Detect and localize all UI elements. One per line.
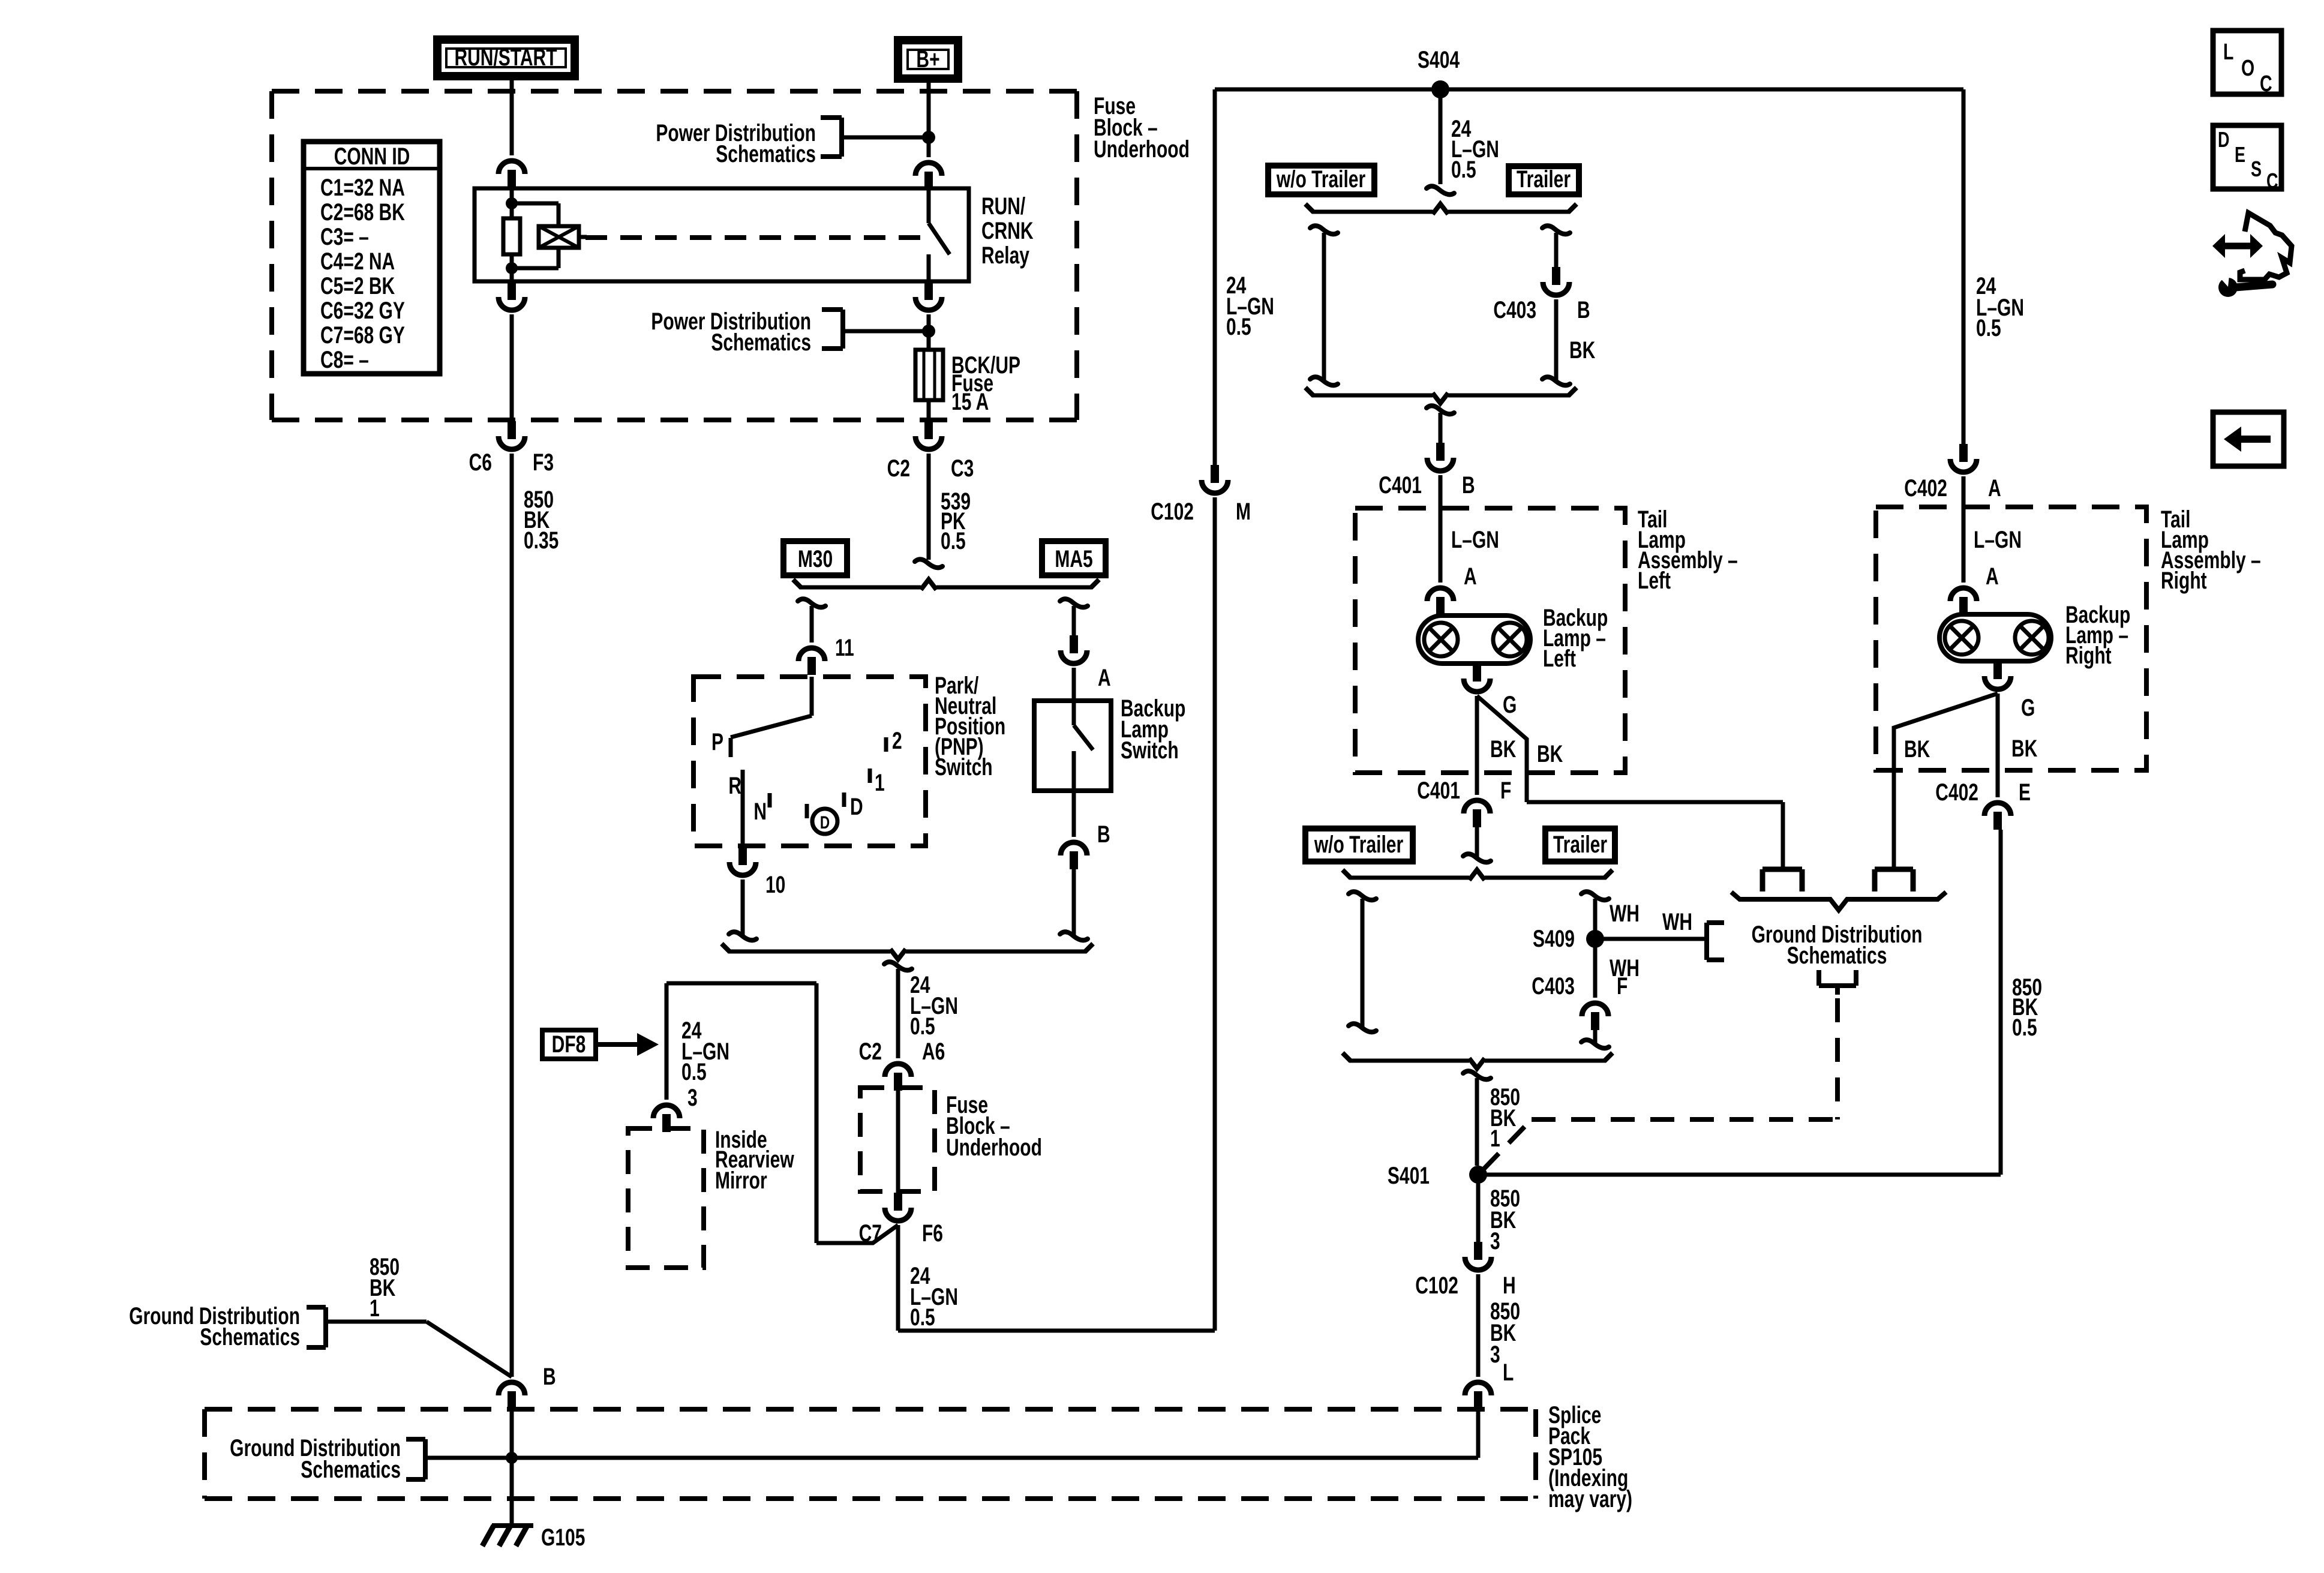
svg-text:G105: G105 [541,1524,585,1551]
connector left lamp G [1473,664,1481,682]
svg-text:w/o Trailer: w/o Trailer [1314,831,1403,858]
svg-text:L: L [1503,1359,1514,1386]
svg-text:Underhood: Underhood [1094,136,1190,163]
svg-text:Right: Right [2065,643,2112,669]
label box w/o Trailer upper [1268,166,1374,194]
PNP switch dashed box [693,677,926,846]
inside rearview mirror dashed box [628,1128,704,1268]
icon box back-arrow [2213,412,2284,466]
svg-text:3: 3 [687,1085,698,1111]
wire trailer branch upper [1554,233,1559,267]
wire coil stub [579,235,587,239]
power label box B+ [898,40,958,79]
svg-text:C403: C403 [1493,297,1536,323]
svg-text:B: B [1577,297,1590,323]
svg-text:L–GN: L–GN [1451,527,1499,553]
label box DF8 [542,1030,596,1059]
wire main through splice [510,1409,514,1499]
svg-text:B: B [543,1364,556,1390]
svg-text:A: A [1098,665,1111,691]
svg-text:may vary): may vary) [1548,1486,1632,1512]
connector C7/F6 [894,1193,902,1211]
wire L-GN into left lamp [1439,475,1443,583]
wire ground dist left [326,1320,427,1324]
wire C403 F stub [1593,1030,1598,1044]
wire jog to mirror feed [816,1225,898,1243]
svg-text:C6: C6 [469,449,492,476]
svg-text:DF8: DF8 [552,1031,586,1058]
bracket power distribution mid [840,310,845,349]
wire to ground tap 1 [1781,802,1785,869]
options bus M30/MA5 [800,586,921,590]
connector C403/B [1552,267,1560,285]
svg-text:Underhood: Underhood [946,1134,1042,1161]
splice break w/o trailer branch top [1310,226,1338,234]
svg-text:RUN/: RUN/ [981,193,1025,220]
splice break symbol above M30 bus [915,559,942,568]
svg-text:0.35: 0.35 [524,527,559,554]
backup lamp switch box [1034,701,1111,791]
svg-text:C401: C401 [1379,472,1422,499]
connector relay left pin out [508,282,516,300]
bracket below ground distribution [1816,970,1821,986]
svg-text:N: N [753,798,767,825]
svg-text:D: D [2218,127,2229,152]
PNP contact 2 tick [884,737,888,752]
svg-text:Schematics: Schematics [200,1324,300,1350]
label box Trailer lower [1545,828,1615,861]
svg-text:C1=32 NA: C1=32 NA [320,175,405,201]
power label box RUN/START [437,40,575,76]
dashed link horizontal [1532,1117,1837,1122]
backup switch blade [1074,725,1093,750]
svg-text:M30: M30 [798,546,833,572]
icon box DESC [2213,125,2281,189]
svg-text:Relay: Relay [981,242,1029,269]
label box Trailer upper [1509,166,1579,194]
svg-text:3: 3 [1490,1341,1500,1368]
wire lower w/o trailer branch [1361,899,1365,1027]
splice break above lower trailer bus [1463,854,1491,862]
wire relay switch top [927,188,931,223]
junction dot S401 [1469,1166,1487,1184]
bracket power distribution top [839,118,844,157]
backup lamp left bulb [1418,616,1530,664]
svg-text:C3: C3 [951,455,974,482]
connector mirror pin 3 [653,1105,680,1118]
svg-text:P: P [711,729,723,755]
splice pack dashed box [205,1409,1536,1499]
svg-text:RUN/START: RUN/START [454,44,557,71]
svg-text:0.5: 0.5 [910,1304,935,1331]
svg-text:B+: B+ [916,46,939,73]
connector backup switch A [1070,635,1078,653]
wire S401 horizontal [1478,1173,2001,1177]
connector C102/H [1474,1242,1482,1260]
CONN ID table box [304,142,440,374]
junction dot relay coil top [506,197,518,209]
wire coil branch top [512,202,559,206]
lower trailer split bus [1350,876,1469,880]
PNP switch blade [731,716,812,737]
wire C401 F stub [1475,827,1479,857]
svg-text:S401: S401 [1388,1163,1430,1189]
svg-text:D: D [850,794,863,820]
ground symbol G105 [492,1523,533,1528]
wire to G105 [510,1499,514,1526]
wire 850 BK 0.35 down [510,454,514,1377]
svg-text:Right: Right [2161,568,2207,594]
wire w/o trailer branch [1322,233,1326,380]
fuse block underhood dashed box [272,91,1077,420]
svg-text:G: G [1503,692,1517,718]
wire relay right out [927,314,931,350]
junction dot S404 [1431,80,1449,98]
relay switch blade [929,223,950,254]
splice break S409 branch top [1581,891,1609,900]
connector C402/A [1959,444,1968,462]
svg-text:Mirror: Mirror [715,1167,767,1194]
svg-text:C5=2 BK: C5=2 BK [320,273,395,299]
svg-text:H: H [1503,1272,1516,1299]
wire backup switch B out [1072,791,1076,837]
svg-text:C7=68 GY: C7=68 GY [320,322,405,349]
svg-text:R: R [728,773,741,799]
svg-text:C4=2 NA: C4=2 NA [320,248,395,275]
ground tap right [1875,867,1913,872]
svg-text:C402: C402 [1904,475,1947,502]
wire S404 horizontal [1215,88,1963,92]
svg-text:Schematics: Schematics [711,329,811,356]
svg-text:Trailer: Trailer [1553,831,1607,858]
PNP contact D-circled tick [805,804,809,818]
PNP contact P tick [729,738,733,757]
wire 24 L-GN to C2/A6 [896,969,900,1058]
svg-text:B: B [1097,821,1110,848]
svg-text:Switch: Switch [935,754,993,781]
wire RUN/START to relay [510,76,514,155]
svg-text:L: L [2223,40,2233,65]
junction dot fuse node [922,325,935,338]
svg-text:BK: BK [2011,736,2038,762]
label box w/o Trailer lower [1305,828,1413,861]
wire backup switch blade bottom [1072,751,1076,791]
junction dot B+ node [922,131,935,144]
connector into relay right pin [915,163,942,176]
svg-text:C: C [2266,169,2278,193]
connector C2/C3 [924,421,933,439]
svg-text:Left: Left [1638,568,1671,594]
wire S409 down [1593,939,1598,998]
svg-text:F: F [1500,778,1511,804]
svg-text:MA5: MA5 [1055,546,1092,572]
splice break trailer branch top [1542,226,1570,234]
svg-text:11: 11 [835,635,854,661]
wire backup switch blade top [1072,701,1076,725]
resistor relay coil suppression [503,218,520,254]
svg-text:C6=32 GY: C6=32 GY [320,298,405,324]
splice break backup B [1060,932,1088,940]
svg-text:2: 2 [892,728,902,754]
svg-text:G: G [2021,695,2035,721]
wire backup B down [1072,869,1076,936]
wire S404 right down [1962,89,1966,444]
connector C401/F [1464,800,1490,813]
splice break trailer branch bottom [1542,377,1570,385]
svg-text:WH: WH [1662,909,1692,935]
svg-text:Schematics: Schematics [301,1457,401,1483]
PNP contact D-circled [812,809,837,834]
svg-text:CRNK: CRNK [981,218,1034,244]
ground distribution brace [1731,892,1946,910]
svg-text:A: A [1464,563,1477,590]
svg-text:F: F [1617,973,1628,999]
wire 850 BK 3 L [1476,1274,1481,1377]
wire up to S404 corner [1213,89,1217,465]
svg-text:3: 3 [1490,1228,1500,1254]
connector C6/F3 [508,421,516,439]
svg-text:C401: C401 [1417,778,1460,804]
wire F6 down [896,1225,900,1331]
label box MA5 [1042,541,1106,575]
connector C403/F [1582,1003,1608,1016]
svg-text:C: C [2260,71,2272,97]
svg-text:A: A [1988,475,2001,502]
bracket ground distribution splice [423,1439,428,1479]
svg-text:BK: BK [1490,736,1517,763]
dashed link vertical [1835,998,1840,1119]
wire mirror feed down [665,983,669,1100]
svg-text:0.5: 0.5 [910,1013,935,1040]
svg-text:C2: C2 [859,1038,882,1065]
svg-text:BK: BK [1537,741,1563,767]
wire through small fuse block [896,1091,900,1193]
svg-text:BK: BK [1904,736,1930,763]
icon wrench-arrow [2240,213,2292,280]
tail lamp assembly right dashed box [1876,507,2146,770]
wire coil branch return [512,266,559,271]
connector backup switch B [1061,842,1087,855]
wire coil branch bottom [557,248,561,268]
wire left lamp BK diagonal [1477,696,1527,802]
icon back arrow [2240,436,2271,443]
wire right lamp BK down [1996,694,2000,797]
wire PNP 10 down [741,879,745,936]
wire left lamp ground run [1527,800,1783,804]
svg-text:BK: BK [1569,337,1596,364]
svg-text:Left: Left [1543,646,1576,672]
wire coil branch right [557,203,561,226]
wire bottom run to right [898,1329,1215,1333]
wire resistor bottom [510,254,514,281]
svg-text:C8= –: C8= – [320,347,369,373]
svg-text:S: S [2251,157,2262,181]
arrow DF8 [598,1042,639,1047]
wire B+ down [927,79,931,157]
lower trailer rejoin bus [1350,1059,1469,1063]
wire splice bus [425,1456,1478,1460]
wire relay left out [510,314,514,421]
tail lamp assembly left dashed box [1355,508,1625,773]
wire left lamp BK down [1475,696,1479,795]
junction dot relay coil bottom [506,262,518,274]
connector relay right pin out [924,282,933,300]
svg-text:0.5: 0.5 [681,1059,707,1085]
svg-text:D: D [820,812,830,833]
wire 850 BK 0.5 down [1999,830,2003,1175]
icon box LOC [2213,31,2281,94]
fuse block small dashed box [860,1088,935,1191]
splice break w/o trailer branch bottom [1310,377,1338,385]
options rejoin bus [729,950,890,954]
label box M30 [783,541,847,575]
fuse BCK/UP 15A [915,350,943,400]
wire fuse out [927,400,931,421]
connector right lamp A [1950,588,1977,601]
trailer options split bus [1313,210,1433,214]
wire mirror feed up [815,983,819,1243]
svg-text:A6: A6 [922,1038,945,1065]
relay coil winding box with X [539,226,579,248]
splice break PNP 10 [729,932,756,940]
splice break lower w/o trailer bottom [1349,1023,1376,1032]
svg-text:L–GN: L–GN [1974,527,2022,553]
wire to backup switch [1072,606,1076,635]
svg-text:C402: C402 [1935,779,1978,806]
wire PNP pin 11 inside [810,677,814,716]
svg-text:F3: F3 [533,449,554,476]
wire backup switch A inside [1072,668,1076,701]
svg-text:0.5: 0.5 [2012,1014,2037,1041]
connector C2/A6 [885,1064,911,1077]
svg-text:O: O [2241,56,2254,81]
svg-text:CONN ID: CONN ID [334,143,410,170]
svg-text:S404: S404 [1418,47,1460,73]
connector PNP pin 10 [738,847,747,865]
svg-text:B: B [1462,472,1475,499]
connector left lamp A [1427,588,1454,601]
svg-text:A: A [1986,563,1999,590]
PNP contact N tick [768,793,772,807]
svg-text:Trailer: Trailer [1517,166,1571,193]
svg-text:0.5: 0.5 [1451,157,1476,183]
wire S401 down [1476,1175,1481,1242]
svg-text:C102: C102 [1415,1272,1458,1299]
wire S409 to ground ref [1595,937,1707,941]
wire up to C102 M [1213,497,1217,1331]
junction dot S409 [1586,930,1604,948]
svg-text:w/o Trailer: w/o Trailer [1276,166,1365,193]
svg-text:0.5: 0.5 [1976,315,2001,341]
wire PNP R contact down [741,770,745,846]
connector right lamp G [1993,661,2002,679]
svg-text:0.5: 0.5 [941,528,966,554]
connector splice L [1465,1382,1491,1395]
svg-text:Switch: Switch [1121,737,1179,764]
bracket S409 ground ref [1704,923,1709,960]
connector into relay left pin [499,161,525,174]
svg-text:F6: F6 [922,1220,943,1247]
dashed link diagonal [1483,1119,1532,1170]
svg-text:M: M [1236,499,1251,525]
svg-text:C7: C7 [859,1220,882,1247]
wire S404 down [1439,89,1443,184]
wire 539 PK 0.5 [927,454,931,560]
wire right lamp BK diagonal [1894,694,1998,869]
wire S409 branch [1593,899,1598,939]
splice break below lower rejoin [1463,1071,1491,1079]
connector C401/B [1436,443,1445,461]
svg-text:1: 1 [370,1295,380,1322]
svg-text:15 A: 15 A [951,389,989,415]
wire 850 BK 1 down [1475,1078,1479,1166]
bracket ground distribution left [323,1307,328,1347]
wire relay switch bottom [927,254,931,281]
wire ground dist diagonal [427,1322,512,1377]
connector ground B [499,1382,525,1395]
wire relay left pin inside [510,188,514,218]
splice break below trailer rejoin [1427,406,1454,414]
splice break lower w/o trailer top [1349,891,1376,900]
splice break S404 [1427,186,1454,194]
junction dot splice [506,1452,518,1464]
trailer options rejoin bus [1313,394,1433,398]
svg-text:10: 10 [765,872,785,898]
splice break below rejoin bus [884,962,912,970]
wire mirror feed top [666,981,816,986]
ground tap left [1762,867,1802,872]
wire power distribution to fuse node [843,329,929,334]
splice break MA5 branch [1060,599,1088,607]
wire to PNP pin 11 [810,606,814,643]
svg-text:C2=68 BK: C2=68 BK [320,199,405,226]
svg-text:C3= –: C3= – [320,224,369,250]
PNP contact 1 tick [868,769,872,783]
wire trailer branch lower [1554,299,1559,380]
svg-text:C102: C102 [1151,499,1194,525]
svg-text:1: 1 [875,770,885,796]
svg-text:Schematics: Schematics [1787,942,1887,969]
wire L-GN into right lamp [1962,476,1966,583]
PNP contact D tick [842,792,846,807]
relay box RUN/CRNK [475,188,969,281]
svg-text:WH: WH [1610,900,1640,927]
svg-text:C403: C403 [1532,973,1575,999]
splice break S409 branch bottom [1581,1040,1609,1048]
splice break M30 branch [798,599,825,607]
svg-text:S409: S409 [1533,926,1575,952]
svg-text:Schematics: Schematics [716,141,816,167]
svg-text:0.5: 0.5 [1226,314,1251,340]
svg-text:E: E [2019,779,2031,806]
svg-text:E: E [2235,142,2245,167]
wire L into splice [1476,1409,1481,1458]
connector C402/E [1984,803,2011,816]
wire to C401 B [1439,413,1443,443]
connector PNP pin 11 [798,648,825,661]
svg-text:1: 1 [1490,1125,1500,1152]
dashed relay control line [585,235,924,240]
wire power distribution to B+ node [842,136,929,140]
backup lamp right bulb [1939,614,2051,661]
connector C102/M [1211,465,1219,483]
svg-text:C2: C2 [887,455,910,482]
